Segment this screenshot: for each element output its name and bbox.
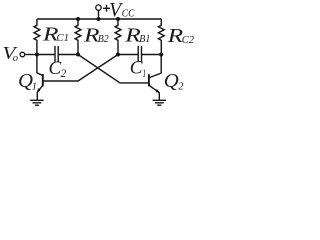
label RB1 [124,25,150,46]
terminal Vo [20,52,25,57]
resistor RC1 [34,19,40,55]
label C1 [130,58,146,80]
svg-text:Q: Q [18,71,33,92]
junction dot rail/RB1 [116,17,120,21]
transistor Q1 emitter arrow [37,88,40,93]
label C2 [49,58,67,80]
wire: Q1 collector [37,55,43,76]
label Q1 [18,71,37,93]
svg-text:B2: B2 [98,34,110,45]
svg-text:Q: Q [164,71,179,92]
svg-text:C1: C1 [57,33,70,44]
wire: C1 to node D [142,54,162,56]
junction node B (RB2 bottom) [76,53,80,57]
resistor RB2 [75,19,81,55]
svg-text:2: 2 [178,81,184,92]
svg-text:2: 2 [61,68,67,80]
wire: cross-couple B to Q2 base [78,55,148,83]
label +VCC [103,0,135,21]
junction node C (RB1 bottom) [116,53,120,57]
wire: Q2 collector [150,55,162,78]
wire: Vo terminal to node A [25,54,37,56]
svg-text:1: 1 [32,81,37,92]
terminal +VCC [96,5,101,10]
label RB2 [83,25,110,46]
junction dot rail/VCC [97,17,101,21]
transistor Q2 [149,74,159,100]
svg-text:C2: C2 [182,35,195,46]
wire: +VCC top rail [37,18,161,20]
ground (Q1) [30,100,43,105]
ground (Q2) [153,100,166,105]
wire: C2 to node B [58,54,78,56]
transistor Q1 [37,74,43,100]
junction dot rail/RB2 [76,17,80,21]
wire: VCC stem [98,10,100,19]
wire: node A to C2 [37,54,55,56]
resistor RB1 [115,19,121,55]
label Vo [3,43,19,64]
svg-text:B1: B1 [139,34,150,45]
wire: cross-couple C to Q1 base [44,55,119,82]
svg-text:CC: CC [122,8,135,19]
label RC2 [166,26,194,47]
junction node D (Q2 collector) [159,53,163,57]
label RC1 [42,24,69,45]
junction node A (Q1 collector) [35,53,39,57]
transistor Q2 emitter arrow [156,89,160,93]
capacitor C2 plates [55,46,58,62]
label Q2 [164,71,185,93]
wire: node C to C1 [118,54,138,56]
svg-text:o: o [13,53,18,64]
svg-text:C: C [130,58,143,79]
capacitor C1 plates [138,46,141,62]
svg-text:1: 1 [143,68,147,80]
resistor RC2 [158,19,164,55]
svg-text:R: R [166,26,183,47]
